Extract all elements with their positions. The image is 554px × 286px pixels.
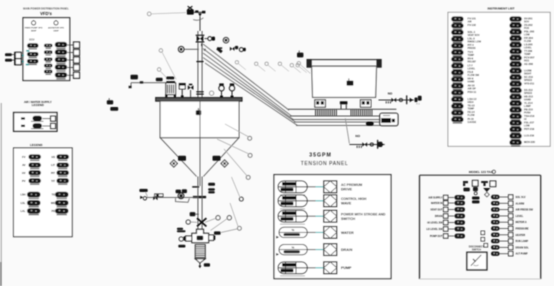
svg-text:30HP: 30HP bbox=[31, 30, 37, 32]
svg-text:PIT: PIT bbox=[51, 171, 55, 175]
svg-text:WATER IN: WATER IN bbox=[431, 202, 443, 205]
svg-text:DRAIN: DRAIN bbox=[435, 215, 443, 218]
svg-text:PUMP: PUMP bbox=[341, 266, 352, 270]
svg-text:SWITCH: SWITCH bbox=[341, 217, 356, 221]
svg-text:DRAIN: DRAIN bbox=[341, 248, 353, 252]
svg-text:LSH: LSH bbox=[20, 193, 25, 197]
svg-text:LEGEND: LEGEND bbox=[32, 103, 44, 107]
svg-text:PV: PV bbox=[22, 179, 26, 183]
svg-text:FEED PUMP VFD: FEED PUMP VFD bbox=[25, 28, 43, 30]
svg-text:MOTOR A: MOTOR A bbox=[516, 221, 527, 224]
svg-text:AIR: AIR bbox=[468, 20, 472, 23]
svg-text:PUMP OUT: PUMP OUT bbox=[430, 235, 443, 238]
svg-text:TE: TE bbox=[52, 193, 56, 197]
svg-text:LIT: LIT bbox=[51, 163, 55, 167]
svg-text:PRESSURE: PRESSURE bbox=[516, 228, 530, 231]
svg-text:PSV-11: PSV-11 bbox=[468, 90, 477, 94]
svg-text:SWITCH: SWITCH bbox=[472, 250, 481, 252]
svg-text:FV-102: FV-102 bbox=[468, 23, 477, 27]
svg-text:AE-208: AE-208 bbox=[524, 62, 533, 66]
svg-text:GAUGE: GAUGE bbox=[468, 121, 477, 124]
svg-text:WE: WE bbox=[51, 201, 55, 205]
svg-text:HI LEVEL SW: HI LEVEL SW bbox=[427, 222, 443, 225]
svg-text:NO: NO bbox=[355, 134, 360, 138]
svg-text:LEVEL: LEVEL bbox=[468, 67, 476, 70]
svg-text:FV: FV bbox=[22, 155, 26, 159]
svg-text:TEMP: TEMP bbox=[468, 54, 475, 57]
svg-text:ECU: ECU bbox=[29, 39, 34, 42]
svg-text:HS: HS bbox=[51, 155, 55, 159]
svg-text:AIR PRESS SW: AIR PRESS SW bbox=[516, 209, 534, 212]
svg-text:HIGH: HIGH bbox=[468, 101, 474, 104]
svg-text:%: % bbox=[292, 228, 295, 232]
svg-text:ALT PUMP: ALT PUMP bbox=[516, 253, 528, 256]
svg-text:DRAIN SOL: DRAIN SOL bbox=[516, 246, 530, 249]
svg-text:HEATER: HEATER bbox=[516, 234, 526, 237]
svg-text:VENT SOV: VENT SOV bbox=[468, 34, 480, 37]
svg-text:HAND: HAND bbox=[468, 81, 475, 84]
svg-text:PRESS: PRESS bbox=[468, 47, 477, 50]
svg-text:LAL: LAL bbox=[20, 209, 25, 213]
svg-text:SOL VLV: SOL VLV bbox=[516, 196, 526, 199]
svg-text:AIR OP: AIR OP bbox=[468, 87, 477, 90]
svg-text:MODEL 123 TAG: MODEL 123 TAG bbox=[469, 170, 494, 174]
svg-text:RUN LAMP: RUN LAMP bbox=[516, 240, 529, 243]
svg-text:VENT OUT: VENT OUT bbox=[430, 209, 443, 212]
svg-text:LLS-219: LLS-219 bbox=[524, 133, 535, 137]
svg-text:LO LEVEL SW: LO LEVEL SW bbox=[426, 228, 443, 231]
svg-text:NO: NO bbox=[388, 92, 393, 96]
svg-text:AV: AV bbox=[22, 163, 26, 167]
svg-text:VFD's: VFD's bbox=[40, 11, 52, 16]
svg-text:MAIN POWER DISTRIBUTION PANEL: MAIN POWER DISTRIBUTION PANEL bbox=[23, 7, 69, 11]
svg-text:LEVEL: LEVEL bbox=[516, 215, 524, 218]
svg-text:RINSE LOW: RINSE LOW bbox=[468, 41, 482, 44]
svg-text:LSL: LSL bbox=[21, 201, 26, 205]
svg-text:WAVE: WAVE bbox=[341, 201, 352, 205]
svg-text:TIT: TIT bbox=[51, 179, 55, 183]
svg-text:PDT-218: PDT-218 bbox=[524, 127, 535, 131]
svg-text:VFD-211: VFD-211 bbox=[524, 81, 535, 85]
svg-text:DRIVE: DRIVE bbox=[341, 187, 353, 191]
svg-text:WATER: WATER bbox=[341, 231, 354, 235]
svg-text:PE: PE bbox=[52, 209, 56, 213]
svg-text:MOV-220: MOV-220 bbox=[524, 140, 536, 144]
svg-text:INSTRUMENT LIST: INSTRUMENT LIST bbox=[488, 7, 515, 11]
svg-text:LEGEND: LEGEND bbox=[30, 143, 43, 147]
svg-text:TENSION PANEL: TENSION PANEL bbox=[301, 161, 348, 167]
svg-text:TEMP: TEMP bbox=[468, 108, 475, 111]
svg-text:FLOW SW: FLOW SW bbox=[468, 74, 480, 77]
svg-text:35GPM: 35GPM bbox=[309, 153, 332, 159]
svg-text:DISCONNECT: DISCONNECT bbox=[469, 247, 485, 249]
svg-text:ALARM: ALARM bbox=[516, 202, 525, 205]
svg-text:AIR SUPPLY: AIR SUPPLY bbox=[428, 197, 443, 200]
svg-text:HV: HV bbox=[22, 171, 26, 175]
svg-text:AGITATOR VFD: AGITATOR VFD bbox=[48, 27, 64, 30]
svg-text:%: % bbox=[292, 245, 295, 249]
svg-text:10HP: 10HP bbox=[53, 30, 59, 32]
svg-text:RELIEF: RELIEF bbox=[468, 61, 477, 64]
svg-text:FLOW: FLOW bbox=[468, 114, 476, 117]
